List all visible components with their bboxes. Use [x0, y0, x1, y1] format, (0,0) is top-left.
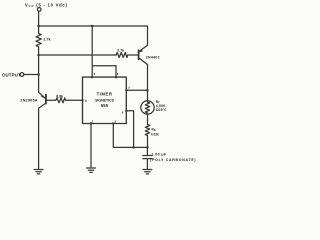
- wire pin 2 to cap node: [113, 124, 147, 148]
- wire output stub: [24, 74, 39, 76]
- node output stub junction: [37, 73, 40, 76]
- ground (pin 1): [87, 168, 96, 172]
- svg-text:4: 4: [93, 72, 95, 76]
- pin 8 mark: [115, 76, 117, 78]
- pin 4 mark: [91, 76, 93, 78]
- svg-text:SIGNETICS: SIGNETICS: [95, 99, 115, 103]
- svg-text:(POLY CARBONATE): (POLY CARBONATE): [150, 158, 196, 162]
- wire rail down to pins 4 and 8 bridge: [92, 26, 116, 77]
- ground (Q1): [34, 170, 43, 174]
- wire top rail to Q1 emitter: [39, 26, 148, 45]
- node RB-cap junction: [146, 146, 149, 149]
- transistor Q2 2N4402: [139, 45, 148, 64]
- node collector-thermistor junction: [146, 89, 149, 92]
- transistor Q1 2N2905A: [39, 92, 55, 108]
- Vcc supply terminal: [37, 8, 41, 12]
- svg-text:2.7k: 2.7k: [43, 38, 51, 42]
- svg-text:4.02k: 4.02k: [151, 132, 159, 136]
- wire Q2 collector down: [147, 65, 149, 101]
- pin 7 mark: [125, 89, 127, 91]
- pin 3 mark: [82, 99, 84, 101]
- wire down to Q1 emitter: [38, 55, 40, 92]
- ground (C1): [143, 170, 152, 174]
- capacitor C1 1.00uF: [143, 147, 152, 169]
- svg-text:3: 3: [85, 99, 87, 103]
- IC U1 555 timer body: [83, 77, 127, 123]
- resistor R2 2.7k (horizontal): [115, 53, 138, 58]
- svg-text:Ω25°C: Ω25°C: [156, 108, 167, 112]
- node rail takeoff for pins 4-8: [91, 25, 94, 28]
- pin 1 bottom mark: [90, 122, 92, 124]
- svg-text:OUTPUT: OUTPUT: [2, 72, 21, 77]
- resistor R1 2.7k (vertical): [36, 26, 41, 55]
- svg-text:TIMER: TIMER: [97, 92, 113, 97]
- pin 2 bottom mark: [112, 122, 114, 124]
- wire thermistor to RB: [147, 114, 149, 124]
- svg-text:8: 8: [117, 72, 119, 76]
- thermistor RT: [141, 101, 154, 114]
- resistor R3 6.8k (horizontal): [55, 98, 83, 103]
- svg-text:2.7k: 2.7k: [117, 49, 124, 53]
- wire pin 6 to cap node: [126, 111, 133, 148]
- node output-line junction: [37, 54, 40, 57]
- wire pin 7 to thermistor top: [126, 89, 147, 91]
- pin 6 mark: [125, 110, 127, 112]
- OUTPUT terminal: [20, 73, 24, 77]
- node Vcc rail junction: [37, 25, 40, 28]
- wire Q1 collector to ground: [38, 108, 40, 169]
- svg-text:VCC (5 - 10 Vdc): VCC (5 - 10 Vdc): [25, 2, 68, 8]
- wire output line: [39, 54, 116, 56]
- svg-text:6: 6: [122, 111, 124, 115]
- node cap junction: [132, 146, 135, 149]
- svg-text:2N2905A: 2N2905A: [20, 98, 38, 102]
- resistor RB 4.02k (vertical): [145, 125, 149, 148]
- svg-text:555: 555: [101, 103, 109, 108]
- svg-text:6.8k: 6.8k: [56, 94, 63, 98]
- svg-text:1.00 μF: 1.00 μF: [151, 152, 167, 156]
- svg-text:2N4402: 2N4402: [146, 56, 160, 60]
- wire pin 1 to ground: [90, 124, 92, 168]
- wire Vcc terminal to top rail: [38, 11, 40, 26]
